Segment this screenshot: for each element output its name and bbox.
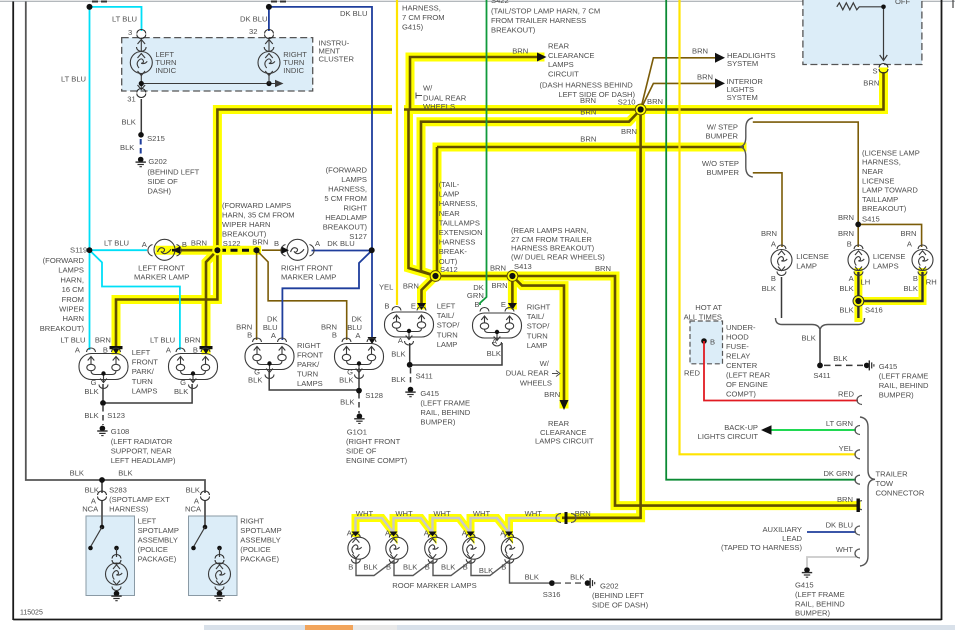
- svg-text:(POLICE: (POLICE: [240, 545, 270, 554]
- svg-text:115025: 115025: [20, 610, 43, 617]
- splice S283: [99, 477, 105, 483]
- svg-text:HARNESS,: HARNESS,: [328, 185, 367, 194]
- ground G108: [97, 426, 107, 436]
- ground G202 (roof lamps): [585, 578, 595, 588]
- svg-text:(REAR LAMPS HARN,: (REAR LAMPS HARN,: [511, 226, 588, 235]
- svg-text:BRN: BRN: [403, 282, 419, 291]
- BLK chain: roof marker lamps B to S316 to G202: [356, 558, 584, 583]
- svg-text:TURN: TURN: [297, 370, 318, 379]
- svg-text:HARN,: HARN,: [60, 275, 84, 284]
- svg-text:G202: G202: [600, 582, 619, 591]
- BLK wires: left park lamps G to S123 to G108: [103, 384, 192, 425]
- svg-text:B: B: [710, 338, 715, 347]
- svg-text:HOT AT: HOT AT: [695, 303, 722, 312]
- connector S below switch box: [879, 64, 888, 74]
- roof marker lamp 4: [463, 534, 485, 564]
- svg-text:G108: G108: [111, 427, 130, 436]
- svg-text:TURN: TURN: [527, 331, 548, 340]
- svg-text:WHT: WHT: [433, 509, 451, 518]
- svg-text:3: 3: [128, 28, 132, 37]
- underbrace collector below license lamps: [776, 318, 865, 330]
- svg-text:BRN: BRN: [692, 47, 708, 56]
- plain BRN wires: S210 to headlights / interior lights arrows: [641, 58, 716, 110]
- svg-text:B: B: [182, 240, 187, 249]
- BRN core: marker lamp B to S122 (dashed highlighted): [172, 249, 257, 252]
- BLK wires: tail lamps A to S411(left) to G415: [410, 343, 502, 386]
- svg-text:AUXILIARY: AUXILIARY: [762, 525, 802, 534]
- left spotlamp internals: switch + bulb + ground: [88, 525, 127, 601]
- svg-text:HARNESS BREAKOUT): HARNESS BREAKOUT): [511, 244, 595, 253]
- svg-text:SPOTLAMP: SPOTLAMP: [240, 526, 281, 535]
- svg-text:(LICENSE LAMP: (LICENSE LAMP: [862, 149, 920, 158]
- connector arcs: S283 A terminals: [98, 491, 210, 501]
- svg-text:BREAKOUT): BREAKOUT): [491, 26, 536, 35]
- svg-text:LAMP TOWARD: LAMP TOWARD: [862, 186, 918, 195]
- svg-text:NCA: NCA: [82, 505, 99, 514]
- svg-text:NCA: NCA: [185, 505, 202, 514]
- splice at DK BLU top: [266, 4, 272, 10]
- svg-text:S413: S413: [514, 262, 532, 271]
- svg-text:BREAK-: BREAK-: [439, 247, 468, 256]
- svg-text:BRN: BRN: [512, 47, 528, 56]
- svg-text:(LEFT RADIATOR: (LEFT RADIATOR: [111, 437, 173, 446]
- svg-text:SUPPORT, NEAR: SUPPORT, NEAR: [111, 447, 173, 456]
- right front park/turn lamp (right): [335, 338, 384, 379]
- ground G202 (behind dash): [136, 157, 146, 167]
- svg-text:E: E: [501, 300, 506, 309]
- svg-text:SIDE OF: SIDE OF: [346, 447, 377, 456]
- svg-text:ASSEMBLY: ASSEMBLY: [138, 536, 178, 545]
- svg-text:BLK: BLK: [525, 573, 539, 582]
- svg-text:RED: RED: [838, 390, 855, 399]
- white gap in trunk where YEL vertical crosses: [392, 103, 404, 116]
- svg-text:BRN: BRN: [647, 97, 663, 106]
- svg-text:BLK: BLK: [839, 306, 853, 315]
- svg-text:(LEFT REAR: (LEFT REAR: [726, 371, 771, 380]
- svg-text:S122: S122: [223, 239, 241, 248]
- tick for W/DUAL REAR WHEELS (top): [416, 93, 422, 99]
- roof lamp A entry wedges: [352, 532, 514, 537]
- yellow highlight bands of highlighted BRN circuit: [116, 57, 884, 518]
- svg-text:BLK: BLK: [762, 284, 776, 293]
- svg-text:BUMPER): BUMPER): [795, 609, 830, 618]
- license lamps LH: [848, 245, 869, 276]
- svg-text:WIPER HARN: WIPER HARN: [222, 220, 271, 229]
- W/STEP-W/O STEP brace: [740, 118, 753, 177]
- svg-text:STOP/: STOP/: [527, 322, 551, 331]
- svg-text:LEFT: LEFT: [437, 302, 456, 311]
- svg-text:PACKAGE): PACKAGE): [240, 555, 279, 564]
- svg-text:S412: S412: [440, 265, 458, 274]
- svg-text:TAIL/: TAIL/: [437, 311, 455, 320]
- BRN wire: right marker dot to right park lamps: [257, 250, 347, 340]
- svg-text:LEFT FRONT: LEFT FRONT: [138, 264, 185, 273]
- BRN cores of highlighted trunk: [116, 57, 884, 518]
- splice S415: [855, 222, 861, 228]
- splice right of S122: [254, 247, 260, 253]
- ground G415 (left frame rail, left): [405, 387, 415, 397]
- svg-text:OFF: OFF: [895, 0, 911, 6]
- svg-text:RAIL, BEHIND: RAIL, BEHIND: [879, 381, 929, 390]
- svg-text:31: 31: [127, 95, 135, 104]
- headlamp switch internals (top right box): [837, 3, 888, 61]
- svg-text:S119: S119: [70, 246, 87, 255]
- svg-text:COMPT): COMPT): [726, 390, 756, 399]
- svg-text:LAMP: LAMP: [439, 190, 460, 199]
- LT BLU (cyan) wires: S119 net: [90, 7, 180, 350]
- BLK cores license lamps highlighted: [858, 272, 922, 318]
- svg-text:B: B: [274, 239, 279, 248]
- left front park/turn lamp (right): [169, 348, 218, 389]
- svg-text:BRN: BRN: [95, 336, 111, 345]
- svg-text:TURN: TURN: [132, 377, 153, 386]
- svg-text:BRN: BRN: [761, 229, 777, 238]
- svg-text:EXTENSION: EXTENSION: [439, 228, 483, 237]
- svg-text:S283: S283: [109, 486, 127, 495]
- svg-text:(FORWARD: (FORWARD: [326, 166, 368, 175]
- svg-text:FRONT: FRONT: [297, 351, 324, 360]
- arrowheads headlights/interior: [715, 53, 725, 89]
- connector 3 at cluster top: [137, 30, 146, 39]
- svg-text:G415: G415: [879, 362, 898, 371]
- svg-text:RAIL, BEHIND: RAIL, BEHIND: [795, 600, 845, 609]
- underhood fuse center pin B: [701, 338, 707, 344]
- svg-text:HARNESS: HARNESS: [439, 238, 476, 247]
- svg-text:S127: S127: [349, 232, 367, 241]
- svg-text:LH: LH: [861, 278, 871, 287]
- svg-text:E: E: [411, 302, 416, 311]
- svg-text:BRN: BRN: [595, 264, 611, 273]
- svg-text:HARN, 35 CM FROM: HARN, 35 CM FROM: [222, 211, 295, 220]
- svg-text:(BEHIND LEFT: (BEHIND LEFT: [147, 168, 199, 177]
- svg-text:DASH): DASH): [147, 187, 171, 196]
- svg-text:RIGHT: RIGHT: [527, 303, 551, 312]
- ground G1O1: [354, 413, 364, 423]
- svg-text:SIDE OF: SIDE OF: [147, 177, 178, 186]
- svg-text:INDIC: INDIC: [283, 66, 304, 75]
- svg-text:B: B: [501, 563, 506, 572]
- roof marker lamp 5: [501, 534, 523, 564]
- svg-text:BLK: BLK: [487, 349, 501, 358]
- right turn indicator lamp: [258, 38, 280, 84]
- svg-text:NEAR: NEAR: [862, 167, 884, 176]
- svg-text:LIGHTS CIRCUIT: LIGHTS CIRCUIT: [698, 432, 759, 441]
- BRN wire: brace W/STEP to S415 to license lamps: [753, 122, 922, 247]
- svg-text:(TAIL/STOP LAMP HARN, 7 CM: (TAIL/STOP LAMP HARN, 7 CM: [491, 7, 600, 16]
- YEL thin wire left: top to left tail lamp B: [396, 0, 398, 305]
- svg-text:FUSE-: FUSE-: [726, 342, 749, 351]
- svg-text:REAR: REAR: [548, 42, 570, 51]
- BLK wire: cluster 31 to S215 to G202: [140, 99, 143, 156]
- svg-text:BLK: BLK: [570, 573, 584, 582]
- svg-text:BLK: BLK: [833, 354, 847, 363]
- DK GRN wire right: top to trailer DK GRN pin: [666, 0, 856, 481]
- svg-text:HARNESS,: HARNESS,: [862, 158, 901, 167]
- svg-text:BLK: BLK: [839, 284, 853, 293]
- svg-text:RIGHT FRONT: RIGHT FRONT: [281, 264, 333, 273]
- svg-text:(DASH HARNESS BEHIND: (DASH HARNESS BEHIND: [540, 81, 634, 90]
- instrument cluster internals: [130, 38, 283, 90]
- splice S411 (left): [407, 362, 413, 368]
- svg-text:S411: S411: [813, 371, 830, 380]
- arrow for W/DUAL REAR WHEELS (bottom): [552, 371, 560, 377]
- svg-text:DK BLU: DK BLU: [826, 521, 853, 530]
- svg-text:LT BLU: LT BLU: [60, 336, 85, 345]
- roof marker lamp 1: [348, 534, 370, 564]
- svg-text:HARNESS,: HARNESS,: [439, 199, 478, 208]
- WHT cores of roof marker chain: [356, 518, 561, 533]
- trailer pin connectors (: [855, 426, 860, 559]
- svg-text:S422: S422: [491, 0, 509, 5]
- svg-text:BACK-UP: BACK-UP: [724, 423, 758, 432]
- left spotlamp assembly box: [86, 516, 135, 596]
- BLK: underbrace nub to S411(right) + dashed to G415: [820, 330, 863, 365]
- svg-text:LAMPS: LAMPS: [341, 175, 367, 184]
- svg-text:NEAR: NEAR: [439, 209, 461, 218]
- svg-text:BLK: BLK: [441, 563, 455, 572]
- svg-text:BREAKOUT): BREAKOUT): [323, 223, 368, 232]
- splice S127: [369, 247, 375, 253]
- svg-text:BLK: BLK: [904, 284, 918, 293]
- svg-text:BREAKOUT): BREAKOUT): [862, 204, 907, 213]
- svg-text:BRN: BRN: [838, 213, 854, 222]
- svg-text:BLK: BLK: [174, 387, 188, 396]
- svg-text:PACKAGE): PACKAGE): [138, 555, 177, 564]
- svg-text:BLK: BLK: [479, 566, 493, 575]
- svg-text:BRN: BRN: [185, 336, 201, 345]
- arrow DK BLU into A of right park lamp 2: [368, 337, 377, 344]
- splice S215: [138, 132, 144, 138]
- svg-text:BRN: BRN: [580, 135, 596, 144]
- connector 32 at cluster top: [265, 30, 274, 39]
- svg-text:HARNESS): HARNESS): [109, 505, 149, 514]
- svg-text:(LEFT FRAME: (LEFT FRAME: [879, 372, 929, 381]
- svg-text:(TAIL-: (TAIL-: [439, 180, 460, 189]
- LT GRN back-up lights wire: [770, 429, 856, 431]
- splice S128: [356, 388, 362, 394]
- left front park/turn lamp (left): [79, 348, 128, 389]
- svg-text:LAMPS CIRCUIT: LAMPS CIRCUIT: [535, 437, 594, 446]
- svg-text:G: G: [180, 378, 186, 387]
- svg-text:DUAL REAR: DUAL REAR: [506, 369, 550, 378]
- svg-text:WHEELS: WHEELS: [423, 102, 455, 111]
- svg-text:BLK: BLK: [339, 376, 353, 385]
- svg-text:LEFT HEADLAMP): LEFT HEADLAMP): [111, 456, 176, 465]
- svg-text:BRN: BRN: [490, 264, 506, 273]
- svg-text:BRN: BRN: [697, 73, 713, 82]
- svg-text:WHT: WHT: [525, 509, 543, 518]
- svg-text:TAILLAMPS: TAILLAMPS: [439, 218, 480, 227]
- svg-text:G202: G202: [148, 157, 167, 166]
- svg-text:PARK/: PARK/: [132, 367, 155, 376]
- svg-text:S415: S415: [862, 215, 880, 224]
- svg-text:S128: S128: [365, 391, 383, 400]
- svg-text:32: 32: [249, 27, 257, 36]
- svg-text:DK GRN: DK GRN: [823, 469, 853, 478]
- svg-text:BREAKOUT): BREAKOUT): [40, 324, 85, 333]
- svg-text:YEL: YEL: [839, 444, 853, 453]
- svg-text:LICENSE: LICENSE: [862, 177, 895, 186]
- svg-text:REAR: REAR: [548, 419, 570, 428]
- svg-text:CONNECTOR: CONNECTOR: [876, 489, 925, 498]
- svg-text:7 CM FROM: 7 CM FROM: [402, 13, 445, 22]
- svg-text:G415): G415): [402, 23, 424, 32]
- svg-text:BLK: BLK: [403, 563, 417, 572]
- splice S316: [549, 580, 555, 586]
- svg-text:ASSEMBLY: ASSEMBLY: [240, 536, 280, 545]
- svg-text:BRN: BRN: [838, 229, 854, 238]
- svg-text:B: B: [771, 274, 776, 283]
- svg-text:ALL TIMES: ALL TIMES: [684, 313, 722, 322]
- RED wire: underhood B to trailer red connector: [704, 344, 858, 401]
- svg-text:HOOD: HOOD: [726, 333, 749, 342]
- BLK wires: right park lamps G to S128 to G1O1: [269, 368, 359, 413]
- svg-text:RELAY: RELAY: [726, 352, 750, 361]
- svg-text:FROM: FROM: [62, 295, 84, 304]
- svg-text:LT BLU: LT BLU: [150, 336, 175, 345]
- svg-text:S: S: [873, 67, 878, 76]
- svg-text:PARK/: PARK/: [297, 360, 320, 369]
- svg-text:W/O STEP: W/O STEP: [702, 159, 739, 168]
- svg-text:BRN: BRN: [900, 229, 916, 238]
- roof marker lamp 3: [425, 534, 447, 564]
- svg-text:LT BLU: LT BLU: [112, 15, 137, 24]
- svg-text:HEADLAMP: HEADLAMP: [325, 213, 367, 222]
- svg-text:(SPOTLAMP EXT: (SPOTLAMP EXT: [109, 495, 170, 504]
- svg-text:GRN: GRN: [467, 291, 484, 300]
- svg-text:SIDE OF DASH): SIDE OF DASH): [592, 601, 649, 610]
- svg-text:RIGHT: RIGHT: [240, 517, 264, 526]
- svg-text:BRN: BRN: [621, 127, 637, 136]
- trailer tow connector brace: [860, 417, 875, 566]
- svg-text:5 CM FROM: 5 CM FROM: [324, 194, 367, 203]
- svg-text:WHT: WHT: [473, 509, 491, 518]
- svg-text:LAMP: LAMP: [796, 262, 817, 271]
- svg-text:ROOF MARKER LAMPS: ROOF MARKER LAMPS: [392, 581, 476, 590]
- svg-text:ENGINE COMPT): ENGINE COMPT): [346, 456, 408, 465]
- svg-text:BLK: BLK: [118, 469, 132, 478]
- ground G415 (left frame rail, right): [864, 360, 874, 370]
- splice S416 (yellow ringed): [853, 296, 864, 307]
- svg-text:S411: S411: [416, 372, 433, 381]
- svg-text:HARN: HARN: [62, 314, 84, 323]
- svg-text:BRN: BRN: [191, 239, 207, 248]
- splice S119: [87, 247, 93, 253]
- svg-text:(RIGHT FRONT: (RIGHT FRONT: [346, 437, 401, 446]
- BLK wire: left border vertical to S283 spotlamp feed: [26, 2, 205, 528]
- trailer BRN pin with black bar: [857, 499, 863, 513]
- svg-text:B: B: [384, 302, 389, 311]
- svg-text:RH: RH: [926, 278, 937, 287]
- svg-text:16 CM: 16 CM: [62, 285, 84, 294]
- svg-text:LEFT: LEFT: [138, 517, 157, 526]
- WHT wire to trailer + ground: [807, 557, 856, 567]
- svg-text:BLK: BLK: [391, 350, 405, 359]
- svg-text:G1O1: G1O1: [347, 428, 367, 437]
- svg-text:WHT: WHT: [356, 509, 374, 518]
- svg-text:WHT: WHT: [395, 509, 413, 518]
- svg-text:LAMPS: LAMPS: [873, 262, 899, 271]
- right spotlamp assembly box: [189, 516, 238, 596]
- svg-text:RIGHT: RIGHT: [297, 341, 321, 350]
- DK BLU wires: cluster 32 / S127 net: [269, 7, 372, 340]
- splice S123: [100, 400, 106, 406]
- svg-text:B: B: [847, 240, 852, 249]
- svg-text:B: B: [463, 563, 468, 572]
- left tail/stop/turn lamp: [385, 307, 434, 346]
- headlamp switch box (top right, cut off): [803, 0, 922, 65]
- roof marker lamp 2: [386, 534, 408, 564]
- svg-text:DK BLU: DK BLU: [340, 9, 367, 18]
- svg-text:LICENSE: LICENSE: [796, 252, 829, 261]
- svg-text:S210: S210: [618, 98, 636, 107]
- svg-text:BRN: BRN: [252, 238, 268, 247]
- svg-text:S416: S416: [865, 306, 883, 315]
- svg-text:CENTER: CENTER: [726, 361, 758, 370]
- svg-text:LAMPS: LAMPS: [58, 266, 84, 275]
- red connector at trailer: [857, 396, 862, 405]
- svg-text:B: B: [474, 300, 479, 309]
- svg-text:DK BLU: DK BLU: [240, 15, 267, 24]
- svg-text:BLK: BLK: [340, 398, 354, 407]
- svg-text:LAMP: LAMP: [437, 340, 458, 349]
- svg-text:BLK: BLK: [120, 143, 134, 152]
- svg-text:(BEHIND LEFT: (BEHIND LEFT: [592, 591, 644, 600]
- svg-text:RED: RED: [684, 369, 701, 378]
- ground G415 (trailer WHT): [802, 567, 812, 577]
- svg-text:WIPER: WIPER: [59, 305, 84, 314]
- svg-text:W/: W/: [423, 84, 433, 93]
- svg-text:B: B: [332, 331, 337, 340]
- svg-text:WHEELS: WHEELS: [520, 379, 552, 388]
- svg-text:CLUSTER: CLUSTER: [319, 55, 355, 64]
- svg-text:W/: W/: [540, 359, 550, 368]
- splice S210 (yellow ringed): [635, 104, 646, 115]
- svg-text:LAMPS: LAMPS: [297, 379, 323, 388]
- svg-text:CLEARANCE: CLEARANCE: [548, 51, 594, 60]
- svg-text:LEFT: LEFT: [132, 348, 151, 357]
- svg-text:LT BLU: LT BLU: [104, 239, 129, 248]
- svg-text:BLK: BLK: [801, 334, 815, 343]
- svg-text:BLK: BLK: [122, 118, 136, 127]
- svg-text:BLK: BLK: [84, 387, 98, 396]
- svg-text:LICENSE: LICENSE: [873, 252, 906, 261]
- svg-text:BRN: BRN: [575, 509, 591, 518]
- svg-text:UNDER-: UNDER-: [726, 323, 756, 332]
- DK GRN wire S422: top to right tail lamp B: [480, 0, 487, 305]
- svg-text:INDIC: INDIC: [155, 66, 176, 75]
- svg-text:(W/ DUEL REAR WHEELS): (W/ DUEL REAR WHEELS): [511, 253, 605, 262]
- svg-text:LAMPS: LAMPS: [548, 60, 574, 69]
- connector 31 below cluster: [137, 89, 146, 98]
- arrows at ends of highlighted wires: [110, 53, 569, 411]
- svg-text:TAIL/: TAIL/: [527, 312, 545, 321]
- bottom taskbar strip: [150, 625, 955, 630]
- DK BLU auxiliary lead: [807, 531, 856, 533]
- dashes above top dots (cut labels): [92, 1, 287, 3]
- svg-text:(LEFT FRAME: (LEFT FRAME: [420, 399, 470, 408]
- svg-text:BUMPER): BUMPER): [879, 391, 914, 400]
- svg-text:B: B: [425, 563, 430, 572]
- svg-text:YEL: YEL: [379, 283, 393, 292]
- svg-text:B: B: [193, 346, 198, 355]
- svg-text:(POLICE: (POLICE: [138, 545, 168, 554]
- splice S122 (yellow ringed): [212, 245, 222, 255]
- svg-text:(FORWARD LAMPS: (FORWARD LAMPS: [222, 201, 291, 210]
- svg-text:CIRCUIT: CIRCUIT: [548, 70, 579, 79]
- svg-text:BLK: BLK: [186, 486, 200, 495]
- instrument cluster box: [122, 38, 313, 91]
